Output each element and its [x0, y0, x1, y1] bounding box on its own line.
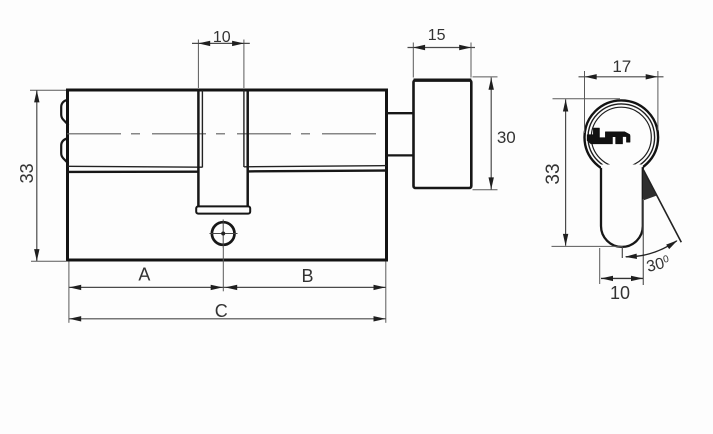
dimension 10 line: [192, 42, 250, 44]
neck top line: [387, 112, 414, 114]
dimension 33 (right view) extension bottom: [552, 245, 623, 247]
dimension 15 line: [408, 47, 476, 49]
cam slot inner left line: [201, 90, 203, 167]
cam slot outer left line: [197, 90, 200, 207]
barrel junction thin line right segment: [244, 166, 387, 167]
dimension 30 (thumbturn height) extension top: [473, 76, 498, 78]
thumbturn body: [414, 80, 472, 188]
dimension 33 (right view) line: [565, 99, 567, 246]
dimension 17 extension left: [584, 71, 586, 133]
dimension 17 line: [579, 76, 664, 78]
dimension 33 line: [36, 91, 38, 262]
extension line left bottom (A/C): [68, 262, 70, 323]
svg-text:B: B: [301, 266, 313, 286]
dimension 17 extension right: [657, 71, 659, 130]
screw hole circle: [212, 222, 235, 245]
cylinder body outline: [68, 90, 387, 260]
stem right edge extension down: [642, 199, 644, 285]
angle arc: [626, 241, 677, 257]
left edge bump lower: [61, 138, 68, 164]
dimension 10 extension right: [243, 40, 245, 89]
barrel outer circle: [585, 100, 659, 174]
thumbturn top thick edge: [414, 78, 472, 81]
dimension 30 extension bottom: [473, 189, 498, 191]
dimension 30 line: [490, 78, 492, 190]
dimension C line: [69, 318, 386, 320]
dimension 15 (thumbturn width) extension left: [412, 43, 414, 78]
svg-text:30: 30: [497, 128, 516, 147]
tangent slanted line: [644, 170, 682, 242]
cam bottom plate: [196, 206, 250, 213]
dimension A/B line: [69, 286, 386, 288]
barrel junction thin line left segment: [68, 165, 203, 168]
svg-text:10: 10: [610, 283, 630, 303]
dimension 33 extension bottom: [31, 260, 67, 262]
svg-text:15: 15: [428, 27, 446, 44]
left edge bump upper: [61, 99, 68, 125]
dimension 10 (cam width) extension left: [197, 40, 199, 89]
svg-text:33: 33: [17, 163, 37, 183]
barrel ring 3: [591, 107, 651, 167]
tangency wedge fill: [643, 169, 656, 201]
cam slot inner right line: [243, 90, 245, 167]
dimension 33 (right view) extension top: [553, 98, 621, 100]
barrel junction thick line left segment: [68, 170, 199, 173]
screw center dot: [221, 232, 225, 236]
stem outline: [601, 167, 643, 247]
svg-text:C: C: [215, 301, 228, 321]
keyway profile: [587, 128, 630, 144]
svg-text:17: 17: [612, 57, 631, 76]
neck bottom line: [387, 154, 414, 156]
stem interior mask: [601, 165, 643, 247]
centerline: [58, 133, 383, 135]
cam slot outer right line: [246, 90, 249, 207]
extension line right bottom (B/C): [385, 262, 387, 323]
screw crosshair vertical: [222, 220, 224, 249]
svg-text:10: 10: [213, 29, 231, 46]
dimension 33 (left) extension top: [30, 89, 66, 91]
svg-text:33: 33: [543, 163, 564, 184]
svg-text:A: A: [138, 265, 150, 285]
stem left edge extension down: [599, 248, 601, 284]
barrel ring 2: [588, 104, 655, 171]
barrel junction thick line right segment: [248, 169, 387, 172]
dimension 10 (stem width) line: [601, 277, 643, 279]
screw crosshair horizontal: [210, 233, 238, 235]
extension line screw center: [222, 248, 224, 291]
dimension 15 extension right: [470, 43, 472, 78]
angle vertex tick: [621, 246, 623, 258]
